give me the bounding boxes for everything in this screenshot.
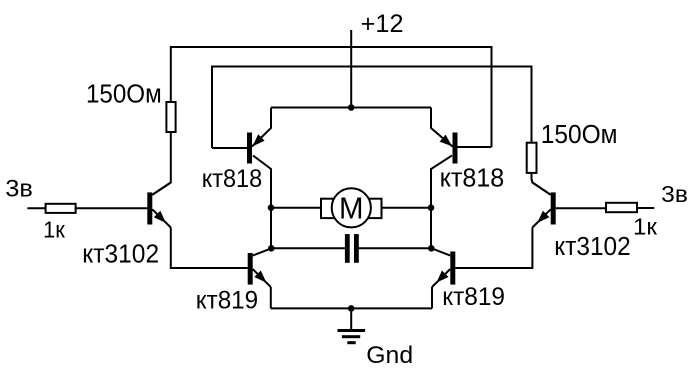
resistor R2 150Ом (right) bbox=[527, 143, 537, 173]
wire: right kt818 base lead bbox=[458, 146, 492, 148]
wire: right input lead bbox=[637, 207, 654, 209]
wire: left 150Ом bottom to kt3102 collector bbox=[152, 132, 171, 195]
resistor R4 1к (right) bbox=[606, 203, 637, 212]
svg-text:M: M bbox=[339, 192, 364, 226]
motor M1 body bbox=[332, 188, 371, 227]
wire: right kt819 emitter drop bbox=[431, 287, 433, 308]
node: left capacitor junction bbox=[268, 245, 275, 252]
svg-text:кт819: кт819 bbox=[196, 287, 259, 315]
node: right motor junction bbox=[428, 204, 435, 211]
node: right capacitor junction bbox=[428, 245, 435, 252]
svg-text:1к: 1к bbox=[633, 214, 658, 240]
wire: capacitor rail left bbox=[271, 247, 345, 249]
svg-text:кт3102: кт3102 bbox=[554, 233, 630, 261]
svg-text:1к: 1к bbox=[43, 217, 65, 243]
transistor Q3 кт818 (right, PNP) bbox=[431, 108, 458, 249]
transistor Q5 кт819 (left, NPN) bbox=[248, 248, 272, 287]
svg-text:+12: +12 bbox=[361, 11, 404, 38]
wire: right kt3102 emitter to kt819 base bbox=[455, 228, 532, 269]
resistor R1 150Ом (left) bbox=[166, 102, 175, 132]
wire: +12 supply lead bbox=[350, 30, 352, 108]
svg-text:кт819: кт819 bbox=[442, 283, 505, 311]
resistor R3 1к (left) bbox=[46, 204, 76, 213]
wire: +12 rail bbox=[271, 107, 431, 109]
svg-text:кт818: кт818 bbox=[440, 164, 505, 192]
svg-text:Gnd: Gnd bbox=[366, 342, 413, 369]
wire: left kt818 base lead bbox=[212, 147, 247, 149]
svg-text:3в: 3в bbox=[661, 181, 688, 207]
transistor Q6 кт819 (right, NPN) bbox=[432, 248, 456, 287]
transistor Q2 кт818 (left, PNP) bbox=[247, 108, 271, 249]
node: +12 junction bbox=[348, 104, 355, 111]
node: left motor junction bbox=[268, 204, 275, 211]
wire: left input lead bbox=[27, 207, 45, 209]
wire: cross line 2 (left kt818 base to right 150Om top) bbox=[212, 67, 532, 149]
svg-text:кт818: кт818 bbox=[202, 165, 263, 193]
svg-text:150Ом: 150Ом bbox=[86, 81, 162, 109]
svg-text:150Ом: 150Ом bbox=[541, 121, 618, 149]
svg-text:3в: 3в bbox=[5, 177, 33, 203]
motor M1 terminals bbox=[321, 199, 382, 218]
wire: left kt819 emitter drop bbox=[270, 287, 272, 308]
wire: capacitor rail right bbox=[359, 247, 431, 249]
svg-text:кт3102: кт3102 bbox=[82, 241, 159, 269]
ground bbox=[338, 329, 366, 344]
wire: top cross line 1 (left 150Om top to right kt818 base) bbox=[171, 47, 492, 147]
wire: bottom ground rail bbox=[271, 307, 432, 309]
wire: right base wire from 1к bbox=[556, 207, 606, 209]
wire: motor rail left bbox=[271, 207, 321, 209]
wire: left base wire to kt3102 bbox=[76, 207, 148, 209]
wire: motor rail right bbox=[382, 207, 432, 209]
transistor Q4 кт3102 (right, NPN) bbox=[532, 183, 555, 228]
wire: right 150Ом bottom to kt3102 collector bbox=[532, 173, 551, 195]
transistor Q1 кт3102 (left, NPN) bbox=[147, 183, 171, 228]
wire: ground stub bbox=[350, 308, 352, 329]
capacitor C1 bbox=[345, 234, 359, 263]
wire: left kt3102 emitter to kt819 base bbox=[171, 228, 248, 269]
node: ground junction bbox=[348, 305, 355, 312]
